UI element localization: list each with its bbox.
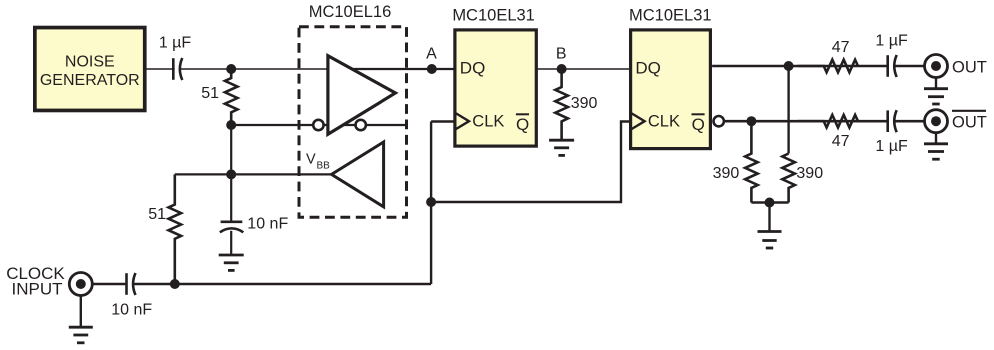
connector J3 OUT-bar xyxy=(925,110,948,133)
wire: clock bus to FF2 xyxy=(431,122,629,203)
resistor R5 47 (bottom output series) xyxy=(798,115,858,128)
svg-text:V: V xyxy=(306,152,316,168)
buffer triangle U1a (EL16 receiver) xyxy=(328,56,396,135)
node: FF2 Q junction xyxy=(784,61,794,71)
bubble: EL16 inverting output xyxy=(356,120,366,130)
node: clock bus junction xyxy=(426,197,436,207)
wire: noise generator output to FF1 D input (passes through EL16 buffer) xyxy=(146,68,356,70)
ground: termination resistors xyxy=(758,203,782,249)
svg-text:Q: Q xyxy=(516,115,529,134)
svg-text:INPUT: INPUT xyxy=(12,280,63,299)
svg-text:DQ: DQ xyxy=(460,59,486,78)
capacitor C2 10nF (VBB decoupling, vertical) xyxy=(220,174,289,255)
label CLOCK INPUT xyxy=(6,264,65,299)
resistor R4 47 (top output series) xyxy=(798,60,858,73)
svg-text:CLK: CLK xyxy=(472,113,504,131)
svg-text:B: B xyxy=(556,46,567,63)
wire: C5 to OUT-bar connector xyxy=(894,120,925,123)
buffer triangle U1b VBB reference (points left) xyxy=(332,142,384,207)
label VBB xyxy=(306,152,330,172)
wire: vertical from Q junction down to R7 xyxy=(787,66,789,154)
resistor R1 51 (vertical, below C1 junction) xyxy=(201,69,237,125)
wire: Q-bar to output network xyxy=(724,120,887,123)
bubble: FF2 Q-bar output xyxy=(714,116,724,126)
svg-text:390: 390 xyxy=(571,95,598,112)
svg-text:BB: BB xyxy=(317,161,331,172)
connector J1 clock input xyxy=(69,273,92,296)
svg-text:OUT: OUT xyxy=(952,114,987,132)
svg-text:47: 47 xyxy=(832,39,850,56)
bubble: EL16 inverting input xyxy=(313,120,323,130)
node: junction at VBB line xyxy=(226,169,236,179)
noise generator box xyxy=(35,28,145,111)
flip-flop U2 MC10EL31 box xyxy=(452,7,536,147)
resistor R2 51 (vertical, to clock line) xyxy=(148,174,181,284)
svg-text:51: 51 xyxy=(201,85,219,102)
node B xyxy=(557,64,567,74)
wire: C3 to clock junction and onward xyxy=(133,283,431,285)
svg-text:1 µF: 1 µF xyxy=(875,33,908,50)
node: clock line junction with R2 xyxy=(170,279,180,289)
svg-text:A: A xyxy=(426,46,437,63)
svg-text:Q: Q xyxy=(692,115,705,134)
svg-text:GENERATOR: GENERATOR xyxy=(40,72,140,89)
capacitor C4 1uF (top output) xyxy=(875,33,908,78)
wire: FF1 Q output to node B to FF2 D input xyxy=(536,68,629,70)
resistor R6 390 (Q-bar termination) xyxy=(713,121,758,202)
svg-text:390: 390 xyxy=(796,165,823,182)
capacitor C1 1uF (noise coupling) xyxy=(159,35,192,82)
resistor R3 390 (node B to ground) xyxy=(555,69,597,140)
svg-text:OUT: OUT xyxy=(952,59,987,77)
svg-text:10 nF: 10 nF xyxy=(111,302,152,319)
capacitor C5 1uF (bottom output) xyxy=(875,110,908,155)
wire: clock connector to C3 xyxy=(92,283,127,285)
svg-text:NOISE: NOISE xyxy=(65,54,115,71)
svg-text:1 µF: 1 µF xyxy=(875,138,908,155)
label OUT-bar xyxy=(952,111,987,132)
capacitor C3 10nF (clock coupling) xyxy=(111,273,152,319)
svg-text:1 µF: 1 µF xyxy=(159,35,192,52)
node: termination ground junction xyxy=(765,198,775,208)
node: junction after C1 xyxy=(226,64,236,74)
ground: below C2 xyxy=(219,255,244,270)
svg-text:390: 390 xyxy=(713,165,740,182)
node: junction at EL16 inverting line xyxy=(226,120,236,130)
node A xyxy=(427,64,437,74)
svg-text:MC10EL16: MC10EL16 xyxy=(309,3,392,21)
node: Q-bar junction xyxy=(746,116,756,126)
ground: below R3 xyxy=(549,140,574,155)
svg-text:CLK: CLK xyxy=(648,113,680,131)
flip-flop U3 MC10EL31 box xyxy=(629,7,712,149)
wire: clock rises to CLK bus xyxy=(430,122,432,285)
wire: EL16 output to node A to FF1 xyxy=(351,68,454,70)
ground: below clock connector xyxy=(69,296,93,343)
svg-text:MC10EL31: MC10EL31 xyxy=(452,7,535,25)
ground: below J2 xyxy=(924,78,948,104)
svg-text:DQ: DQ xyxy=(635,59,661,78)
connector J2 OUT xyxy=(925,55,948,78)
wire: vertical junction to VBB line xyxy=(230,125,232,174)
wire: R6/R7 bottoms joined xyxy=(751,201,788,203)
resistor R7 390 (Q termination) xyxy=(782,154,823,203)
wire: to FF1 CLK pin xyxy=(431,120,454,122)
wire: VBB line (left to R2, right to VBB buffer apex) xyxy=(175,173,332,175)
ground: below J3 xyxy=(924,134,948,160)
wire: C4 to OUT connector xyxy=(894,65,925,68)
wire: FF2 Q output to output network xyxy=(712,65,886,68)
op-amp U1 MC10EL16 dashed box xyxy=(299,27,407,217)
svg-text:47: 47 xyxy=(832,133,850,150)
svg-text:51: 51 xyxy=(148,206,166,223)
svg-text:MC10EL31: MC10EL31 xyxy=(629,7,712,25)
svg-text:10 nF: 10 nF xyxy=(247,216,288,233)
wire: junction to EL16 inverting input/output line xyxy=(231,124,406,126)
